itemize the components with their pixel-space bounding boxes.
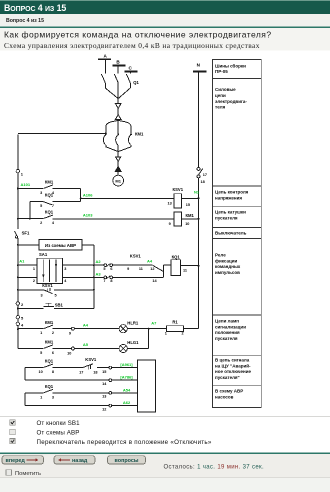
svg-text:7: 7 (103, 279, 105, 283)
svg-text:М1: М1 (115, 179, 121, 184)
svg-text:8: 8 (52, 370, 54, 374)
svg-text:Пометить: Пометить (15, 471, 41, 477)
svg-text:КSV1: КSV1 (42, 283, 53, 288)
svg-text:ное отключение: ное отключение (215, 369, 251, 374)
svg-text:2: 2 (52, 331, 54, 335)
svg-text:КQ1: КQ1 (45, 359, 54, 364)
svg-text:Выключатель: Выключатель (215, 230, 247, 235)
svg-text:17: 17 (203, 173, 207, 177)
svg-text:9: 9 (127, 267, 129, 271)
svg-text:А103: А103 (83, 212, 93, 217)
svg-text:3: 3 (40, 191, 42, 195)
svg-text:Переключатель переводится в по: Переключатель переводится в положение «О… (37, 439, 212, 446)
svg-text:15: 15 (186, 203, 190, 207)
svg-text:Цепи ламп: Цепи ламп (215, 318, 239, 323)
svg-text:А106: А106 (83, 193, 93, 198)
svg-text:вперед: вперед (6, 458, 26, 464)
svg-text:1: 1 (165, 331, 167, 335)
svg-text:10: 10 (67, 351, 71, 355)
svg-text:сигнализации: сигнализации (215, 324, 246, 329)
svg-text:9: 9 (69, 332, 71, 336)
svg-text:17: 17 (79, 370, 83, 374)
svg-text:KSV1: KSV1 (130, 253, 142, 258)
svg-text:Цепь контроля: Цепь контроля (215, 189, 249, 194)
svg-text:Осталось: 1 час. 19 мин. 37 се: Осталось: 1 час. 19 мин. 37 сек. (164, 464, 265, 470)
svg-text:А101: А101 (21, 182, 31, 187)
svg-text:командных: командных (215, 264, 241, 269)
svg-text:назад: назад (72, 458, 88, 464)
svg-text:11: 11 (139, 267, 143, 271)
svg-text:А4: А4 (83, 322, 89, 327)
svg-text:Q1: Q1 (133, 80, 139, 85)
svg-text:В цепь сигнала: В цепь сигнала (215, 357, 250, 362)
svg-text:18: 18 (201, 180, 205, 184)
svg-text:2: 2 (182, 331, 184, 335)
svg-text:1: 1 (33, 267, 35, 271)
svg-text:От кнопки SB1: От кнопки SB1 (37, 420, 81, 427)
svg-text:R1: R1 (172, 319, 178, 324)
svg-text:КМ1: КМ1 (45, 320, 54, 325)
svg-text:5: 5 (40, 351, 42, 355)
svg-text:электродвига-: электродвига- (215, 99, 247, 104)
svg-text:[А961]: [А961] (120, 362, 133, 367)
svg-text:12: 12 (150, 267, 154, 271)
svg-text:положения: положения (215, 330, 240, 335)
svg-text:13: 13 (167, 202, 171, 206)
svg-text:3: 3 (52, 395, 54, 399)
svg-text:9: 9 (169, 222, 171, 226)
svg-text:А4: А4 (147, 258, 153, 263)
svg-text:Вопрос 4 из 15: Вопрос 4 из 15 (6, 18, 44, 24)
svg-text:Цепь катушки: Цепь катушки (215, 210, 246, 215)
svg-text:10: 10 (38, 370, 42, 374)
svg-text:КМ1: КМ1 (186, 213, 195, 218)
svg-text:5: 5 (54, 294, 56, 298)
svg-text:KSV1: KSV1 (85, 357, 97, 362)
svg-text:КSV1: КSV1 (173, 187, 184, 192)
svg-text:1: 1 (40, 331, 42, 335)
svg-text:КQ1: КQ1 (45, 193, 54, 198)
svg-text:11: 11 (183, 268, 187, 272)
svg-text:1: 1 (40, 395, 42, 399)
svg-text:пускателя: пускателя (215, 216, 238, 221)
svg-text:2: 2 (40, 221, 42, 225)
svg-text:Шины сборки: Шины сборки (215, 62, 246, 68)
svg-text:А1: А1 (19, 259, 25, 264)
svg-text:3: 3 (64, 267, 66, 271)
svg-text:HLG1: HLG1 (127, 340, 139, 345)
svg-text:N1: N1 (194, 190, 200, 195)
svg-text:SB1: SB1 (55, 302, 64, 307)
svg-text:вопросы: вопросы (115, 458, 139, 464)
svg-text:От схемы АВР: От схемы АВР (37, 430, 80, 437)
svg-text:А2: А2 (96, 259, 102, 264)
svg-text:Из схемы АВР: Из схемы АВР (45, 243, 76, 248)
svg-text:HLR1: HLR1 (127, 320, 139, 325)
svg-text:Реле: Реле (215, 252, 226, 257)
svg-text:на ЩУ "Аварий-: на ЩУ "Аварий- (215, 362, 251, 368)
svg-text:12: 12 (102, 407, 106, 411)
svg-text:импульсов: импульсов (215, 270, 240, 275)
svg-text:2: 2 (33, 279, 35, 283)
svg-text:КМ1: КМ1 (45, 340, 54, 345)
svg-text:А62: А62 (123, 400, 131, 405)
svg-text:6: 6 (52, 351, 54, 355)
svg-text:А3: А3 (96, 272, 102, 277)
svg-text:5: 5 (103, 267, 105, 271)
svg-text:3: 3 (40, 294, 42, 298)
svg-text:КМ1: КМ1 (135, 132, 144, 137)
svg-text:Как формируется команда на отк: Как формируется команда на отключение эл… (4, 30, 272, 40)
svg-text:[А786]: [А786] (120, 375, 133, 380)
svg-text:5: 5 (40, 204, 42, 208)
svg-text:цепи: цепи (215, 93, 226, 98)
svg-text:8: 8 (110, 279, 112, 283)
svg-text:18: 18 (93, 370, 97, 374)
svg-text:теля: теля (215, 105, 226, 110)
svg-text:пускателя": пускателя" (215, 375, 240, 380)
svg-text:SA1: SA1 (39, 252, 48, 257)
svg-text:13: 13 (102, 395, 106, 399)
svg-text:насосов: насосов (215, 394, 234, 399)
svg-text:пускателя: пускателя (215, 336, 238, 341)
svg-text:КQ1: КQ1 (45, 210, 54, 215)
svg-text:КQ1: КQ1 (172, 254, 181, 259)
svg-text:В схему АВР: В схему АВР (215, 388, 243, 393)
svg-text:7: 7 (52, 204, 54, 208)
svg-text:А5: А5 (83, 342, 89, 347)
svg-text:А7: А7 (151, 321, 157, 326)
svg-text:КМ1: КМ1 (45, 180, 54, 185)
svg-text:Силовые: Силовые (215, 87, 236, 92)
svg-text:Схема управления электродвигат: Схема управления электродвигателем 0,4 к… (4, 41, 260, 50)
svg-text:КQ1: КQ1 (45, 384, 54, 389)
svg-text:6: 6 (110, 267, 112, 271)
svg-text:А54: А54 (123, 387, 131, 392)
svg-text:напряжения: напряжения (215, 195, 242, 200)
svg-text:SF1: SF1 (22, 231, 30, 236)
svg-text:ПР-05: ПР-05 (215, 69, 228, 74)
svg-text:10: 10 (185, 222, 189, 226)
svg-text:15: 15 (102, 370, 106, 374)
svg-text:фиксации: фиксации (215, 257, 237, 263)
